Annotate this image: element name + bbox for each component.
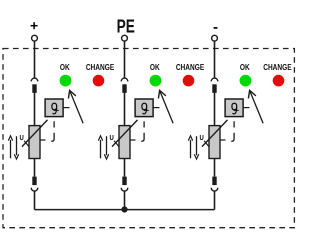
- LED CHANGE red module 3: [273, 75, 285, 87]
- plug-in socket (upper) module 2: [121, 78, 128, 81]
- disconnector fixed contact tick module 1: [40, 139, 46, 141]
- mechanical linkage (dashed) module 1: [51, 121, 54, 141]
- plug-in socket (upper) module 3: [211, 78, 218, 81]
- status pointer arrow module 2: [158, 90, 173, 123]
- plug-in pin (lower) module 3: [212, 177, 216, 186]
- wire: terminal 2 lead into enclosure: [124, 41, 126, 78]
- terminal + circle: [32, 35, 38, 41]
- svg-text:OK: OK: [240, 62, 250, 72]
- voltage-limiting symbol: down arrow module 2: [104, 136, 108, 159]
- plug-in socket (lower) module 1: [31, 188, 38, 191]
- varistor body module 2: [119, 126, 130, 159]
- wire: stub right of theta box module 2: [153, 107, 159, 109]
- voltage-limiting symbol: up arrow module 2: [98, 136, 102, 159]
- wire: varistor to lower pin module 1: [34, 159, 36, 177]
- thermal disconnector box (theta) module 1: [45, 99, 63, 117]
- svg-text:U: U: [109, 135, 113, 143]
- terminal - circle: [212, 35, 218, 41]
- wire: terminal 1 lead into enclosure: [34, 41, 36, 78]
- voltage-limiting symbol: up arrow module 1: [8, 136, 12, 159]
- wire: pin to varistor module 2: [124, 93, 126, 126]
- disconnector fixed contact tick module 2: [130, 139, 136, 141]
- terminal - label: [214, 27, 218, 29]
- plug-in pin (lower) module 1: [32, 177, 36, 186]
- plug-in socket (lower) module 2: [121, 188, 128, 191]
- thermal disconnector box (theta) module 3: [225, 99, 243, 117]
- U-symbol tail line module 3: [204, 141, 209, 147]
- varistor body module 1: [29, 126, 40, 159]
- LED OK green module 2: [150, 75, 162, 87]
- wire: socket to bottom bus module 3: [214, 191, 216, 210]
- LED OK green module 3: [240, 75, 252, 87]
- LED OK green module 1: [60, 75, 72, 87]
- U-symbol tail line module 2: [114, 141, 119, 147]
- wire: stub right of theta box module 1: [63, 107, 69, 109]
- mechanical linkage (dashed) module 3: [231, 121, 234, 141]
- varistor/disconnector diagonal module 1: [22, 120, 48, 147]
- wire: socket to bottom bus module 1: [34, 191, 36, 210]
- voltage-limiting symbol: down arrow module 1: [14, 136, 18, 159]
- plug-in pin (lower) module 2: [122, 177, 126, 186]
- voltage-limiting symbol: up arrow module 3: [188, 136, 192, 159]
- plug-in pin (upper) module 3: [212, 84, 216, 93]
- junction node on bus (PE): [121, 206, 127, 212]
- plug-in pin (upper) module 1: [32, 84, 36, 93]
- wire: varistor to lower pin module 2: [124, 159, 126, 177]
- bottom equipotential bus wire: [35, 209, 215, 211]
- svg-text:CHANGE: CHANGE: [263, 62, 291, 72]
- plug-in socket (lower) module 3: [211, 188, 218, 191]
- varistor/disconnector diagonal module 3: [202, 120, 228, 147]
- wire: socket to bottom bus module 2: [124, 191, 126, 210]
- svg-text:OK: OK: [60, 62, 70, 72]
- enclosure dashed border: [3, 49, 294, 228]
- svg-text:CHANGE: CHANGE: [176, 62, 204, 72]
- svg-text:U: U: [199, 135, 203, 143]
- wire: stub right of theta box module 3: [243, 107, 249, 109]
- wire: pin to varistor module 3: [214, 93, 216, 126]
- varistor body module 3: [209, 126, 220, 159]
- plug-in socket (upper) module 1: [31, 78, 38, 81]
- varistor/disconnector diagonal module 2: [112, 120, 138, 147]
- LED CHANGE red module 2: [183, 75, 195, 87]
- svg-text:U: U: [19, 135, 23, 143]
- LED CHANGE red module 1: [93, 75, 105, 87]
- disconnector fixed contact tick module 3: [220, 139, 226, 141]
- thermal disconnector box (theta) module 2: [135, 99, 153, 117]
- voltage-limiting symbol: down arrow module 3: [194, 136, 198, 159]
- wire: pin to varistor module 1: [34, 93, 36, 126]
- wire: terminal 3 lead into enclosure: [214, 41, 216, 78]
- status pointer arrow module 1: [68, 90, 83, 123]
- wire: varistor to lower pin module 3: [214, 159, 216, 177]
- mechanical linkage (dashed) module 2: [141, 121, 144, 141]
- plug-in pin (upper) module 2: [122, 84, 126, 93]
- svg-text:OK: OK: [150, 62, 160, 72]
- U-symbol tail line module 1: [24, 141, 29, 147]
- status pointer arrow module 3: [248, 90, 263, 123]
- svg-text:CHANGE: CHANGE: [86, 62, 114, 72]
- terminal PE circle: [122, 35, 128, 41]
- terminal + label: [31, 22, 38, 29]
- svg-text:PE: PE: [117, 17, 135, 38]
